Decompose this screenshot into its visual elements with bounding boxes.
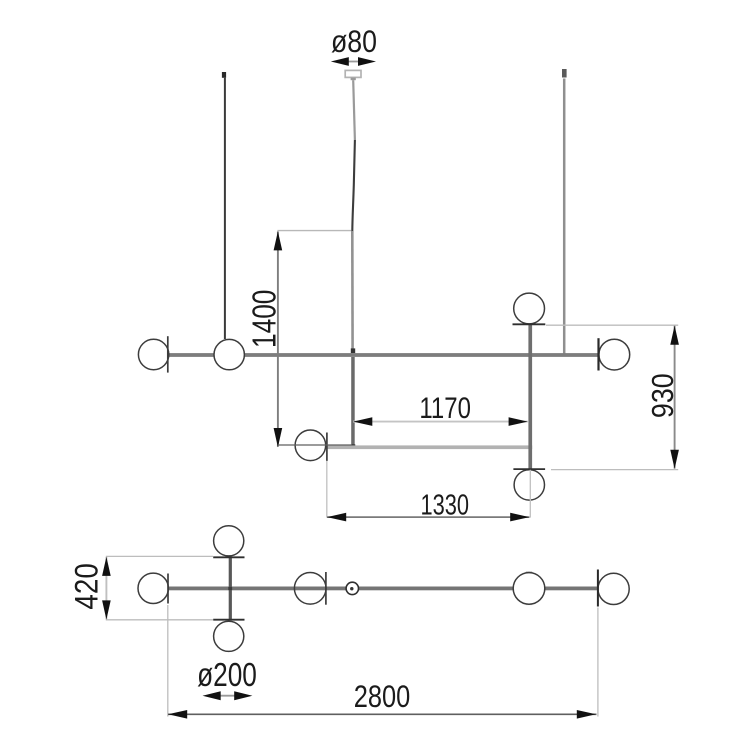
svg-text:1330: 1330 (421, 489, 470, 521)
svg-text:1400: 1400 (246, 290, 283, 348)
dim 420 ext bottom (106, 619, 213, 621)
dim 930 ext bottom (551, 469, 678, 471)
lamp sphere T1 left (138, 573, 168, 603)
wire: left suspension rod (222, 72, 226, 78)
dim 930 arrow down (670, 450, 679, 469)
wire: middle drop rod (351, 357, 355, 447)
wire: suspension cord (353, 80, 355, 140)
dim 930 arrow up (670, 326, 679, 345)
svg-text:420: 420 (68, 563, 104, 610)
dim 2800 ext left (167, 605, 169, 717)
node canopy ø80 (345, 70, 361, 77)
dim 930 line (674, 326, 676, 469)
dim 2800 line (168, 713, 597, 715)
lamp sphere S1 left (138, 339, 168, 369)
wire: main bar (top view) (168, 587, 598, 591)
dim 1170 arrow right (509, 417, 528, 426)
node cord (top view) (346, 582, 358, 594)
wire: main horizontal bar (168, 353, 598, 357)
dim 2800 arrow right (577, 710, 596, 719)
lamp sphere T6 (over bar) (526, 571, 532, 573)
dim 2800 arrow left (168, 710, 187, 719)
dim 1330 ext left (326, 461, 328, 518)
dim 1330 arrow left (327, 513, 346, 522)
dim 2800 ext right (597, 608, 599, 717)
tick at S3 left (597, 338, 599, 370)
lamp sphere S5 bottom (514, 470, 544, 500)
wire: lower tier bar (327, 445, 532, 449)
dim 1400 extension bottom (through S6) (278, 444, 352, 446)
tick above S5 (513, 468, 545, 470)
wire: right vertical bar (528, 324, 532, 469)
svg-text:1170: 1170 (419, 392, 471, 425)
tick at S6 right (326, 433, 328, 461)
dim 930 ext top (546, 324, 678, 326)
svg-text:930: 930 (645, 373, 680, 418)
svg-text:ø200: ø200 (197, 656, 257, 693)
lamp sphere S6 lower-left (295, 430, 326, 461)
dim 1400 extension top (277, 230, 351, 232)
tick at T5 left (597, 570, 599, 607)
svg-text:2800: 2800 (354, 678, 411, 714)
svg-text:ø80: ø80 (331, 23, 377, 59)
dim 1330 ext right (through S5) (529, 470, 531, 518)
dim 1400 line (277, 232, 279, 447)
dim 1170 arrow left (353, 417, 372, 426)
lamp sphere S3 right (599, 339, 630, 370)
dim ø80 arrows (346, 61, 360, 63)
lamp sphere S2 (214, 339, 244, 369)
dim 420 arrow up (102, 557, 111, 576)
lamp sphere T2 top (214, 526, 244, 556)
lamp sphere T5 right (598, 573, 629, 604)
dim 420 ext top (106, 555, 213, 557)
lamp sphere S4 top (514, 293, 545, 324)
tick below T2 (213, 556, 244, 558)
dim 1400 arrow down (274, 428, 283, 447)
tick above T3 (213, 619, 244, 621)
tick below S4 (513, 323, 546, 325)
dim 1330 line (327, 516, 529, 518)
dim ø200 arrows (218, 695, 237, 697)
dim 420 line (105, 557, 107, 619)
tick at T1 right (167, 574, 169, 604)
dim 1170 line (353, 421, 528, 423)
lamp sphere T4 (bar passes through) (294, 573, 326, 605)
tick at T4 right (325, 572, 327, 605)
wire: right suspension rod (562, 69, 567, 78)
dim 1400 arrow up (274, 231, 283, 250)
lamp sphere T3 bottom (214, 621, 244, 651)
tick at S1 right (167, 336, 169, 372)
wire: cross rod (229, 557, 232, 619)
dim 420 arrow down (102, 600, 111, 619)
dim 1330 arrow right (510, 513, 529, 522)
